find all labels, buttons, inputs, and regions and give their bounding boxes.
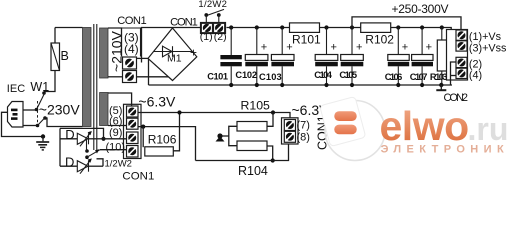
terminal CON2 pin 4 (screw) bbox=[456, 68, 467, 78]
wire +250-300V bus bbox=[352, 17, 461, 31]
terminal CON2 pin 1 (screw) bbox=[456, 30, 467, 40]
junction C103 top bbox=[280, 25, 284, 29]
wire switch to pin10 bbox=[100, 149, 127, 151]
terminal CON1 pin 9 (screw) bbox=[127, 132, 139, 144]
svg-text:~6.3V: ~6.3V bbox=[138, 93, 176, 109]
wire fuse bottom lead bbox=[44, 71, 55, 92]
svg-text:IEC: IEC bbox=[7, 83, 25, 95]
wire ground stub to pins 2 and 4 bbox=[451, 62, 457, 85]
wire heater leg B to CON1 out pin8 bbox=[196, 142, 289, 160]
wire bottom rail bbox=[149, 84, 453, 86]
svg-text:C104: C104 bbox=[314, 70, 332, 80]
svg-text:C106: C106 bbox=[385, 72, 403, 82]
terminal CON1 pin 6 (screw) bbox=[127, 118, 139, 129]
svg-text:W1: W1 bbox=[30, 80, 49, 94]
junction R103 top bbox=[440, 25, 444, 29]
svg-text:(1): (1) bbox=[200, 31, 213, 43]
wire R106 right riser to heater leg A bbox=[173, 113, 179, 151]
svg-text:(2): (2) bbox=[469, 58, 482, 70]
fuse B body bbox=[51, 43, 60, 71]
wire LV winding bottom to pin6 bbox=[108, 125, 127, 127]
wire fuse top lead bbox=[54, 28, 56, 44]
connector CON1 out body bbox=[282, 118, 299, 144]
junction C101 bottom bbox=[229, 83, 233, 87]
wire pin4 to bridge bottom vertex bbox=[137, 76, 169, 78]
transformer HV secondary winding ~210V bbox=[100, 28, 108, 78]
svg-text:CON1: CON1 bbox=[170, 17, 198, 29]
svg-text:C107: C107 bbox=[410, 72, 428, 82]
ground symbol bbox=[36, 137, 49, 150]
junction C106 bottom bbox=[396, 83, 400, 87]
junction C107 top bbox=[420, 25, 424, 29]
wire dial lamp box top bbox=[60, 128, 104, 138]
junction C102 bottom bbox=[255, 83, 259, 87]
svg-text:R103: R103 bbox=[430, 72, 448, 82]
svg-text:+250-300V: +250-300V bbox=[392, 2, 449, 16]
terminal CON1 pin 4 (screw) bbox=[123, 71, 137, 83]
capacitor C106 (electrolytic) bbox=[388, 28, 409, 86]
wire R106 left drop bbox=[142, 127, 144, 148]
svg-text:R106: R106 bbox=[148, 132, 177, 146]
junction R106 right node bbox=[177, 110, 181, 114]
resistor R102 bbox=[361, 23, 391, 33]
switch W1 pole 2 bbox=[36, 116, 47, 127]
wire stub to pin 4 bbox=[451, 75, 457, 77]
svg-text:C101: C101 bbox=[207, 71, 228, 81]
svg-text:D: D bbox=[65, 127, 74, 142]
wire IEC bottom pin to switch bbox=[23, 125, 37, 127]
svg-text:(1)+Vs: (1)+Vs bbox=[469, 31, 502, 43]
svg-text:(7): (7) bbox=[297, 120, 310, 132]
IEC inlet connector bbox=[8, 102, 24, 128]
svg-text:R101: R101 bbox=[292, 33, 321, 47]
terminal W2 pin 1 (screw) bbox=[201, 23, 212, 32]
terminal W2 pin 2 (screw) bbox=[214, 23, 225, 32]
wire IEC top pin to switch bbox=[23, 109, 36, 111]
connector CON1 LV body bbox=[124, 104, 142, 158]
svg-text:CON1: CON1 bbox=[122, 170, 154, 181]
capacitor C101 bbox=[220, 28, 241, 86]
wire heater leg A pin6 to CON1 out pin7 bbox=[138, 113, 291, 120]
junction heater B bbox=[271, 158, 275, 162]
svg-text:.ru: .ru bbox=[468, 111, 508, 147]
capacitor C107 (electrolytic) bbox=[412, 28, 433, 86]
junction R106 left node bbox=[141, 125, 145, 129]
resistor R106 bbox=[145, 147, 174, 156]
connector CON1 W2 body bbox=[201, 23, 226, 34]
junction C105 bottom bbox=[350, 83, 354, 87]
wire switch pole2 to primary bottom bbox=[45, 118, 83, 127]
capacitor C105 (electrolytic) bbox=[341, 28, 364, 86]
junction C106 top bbox=[396, 25, 400, 29]
switch W1 mechanical link (dashed) bbox=[37, 101, 39, 123]
svg-text:1/2W2: 1/2W2 bbox=[198, 0, 227, 10]
svg-text:(4): (4) bbox=[124, 42, 139, 56]
diode D1 bbox=[60, 131, 104, 146]
junction C101 top bbox=[229, 25, 233, 29]
svg-text:+: + bbox=[190, 46, 197, 60]
terminal CON1 pin 8 (screw) bbox=[284, 131, 295, 142]
svg-text:(9): (9) bbox=[109, 127, 122, 139]
junction heater A / humdinger R105 bbox=[271, 110, 275, 114]
wire D2 output loop to switch bbox=[97, 159, 104, 166]
svg-text:CON2: CON2 bbox=[444, 92, 469, 104]
junction R103 bottom bbox=[439, 83, 443, 87]
junction C102 top bbox=[255, 25, 259, 29]
wire rail R101 to R102 bbox=[320, 27, 361, 29]
svg-text:C105: C105 bbox=[339, 70, 357, 80]
resistor R105 bbox=[237, 122, 267, 132]
svg-text:R105: R105 bbox=[241, 99, 271, 113]
wire HV secondary top to connector bbox=[108, 28, 122, 57]
transformer B primary winding bbox=[83, 28, 92, 127]
wire top-left rail from fuse to transformer primary bbox=[55, 27, 83, 29]
switch 1/2W2 top bbox=[204, 9, 224, 23]
wire center tap bbox=[222, 135, 229, 137]
terminal CON1 pin 5 (screw) bbox=[127, 106, 139, 117]
svg-text:M1: M1 bbox=[167, 53, 182, 65]
svg-text:(2): (2) bbox=[214, 31, 227, 43]
terminal CON1 pin 10 (screw) bbox=[127, 146, 139, 158]
wire dial lamp box left bbox=[59, 128, 61, 166]
switch W1 pole 1 bbox=[35, 91, 46, 111]
wire pin3 to bridge input (vertical riser) bbox=[142, 28, 201, 63]
resistor R101 bbox=[290, 23, 320, 33]
resistor R103 bbox=[437, 28, 447, 86]
wire HV secondary bottom to pin4 bbox=[108, 76, 123, 78]
svg-text:CON1: CON1 bbox=[117, 15, 147, 27]
svg-text:C103: C103 bbox=[259, 72, 282, 82]
diode D2 bbox=[60, 158, 103, 173]
chassis tap on bottom rail bbox=[436, 85, 446, 90]
svg-text:C102: C102 bbox=[235, 70, 257, 80]
svg-text:R104: R104 bbox=[238, 164, 268, 178]
logo elwo.ru watermark bbox=[320, 96, 508, 160]
connector CON1 HV body box bbox=[122, 28, 141, 57]
junction C104 top bbox=[324, 25, 328, 29]
svg-text:(10): (10) bbox=[106, 142, 126, 154]
svg-text:elwo: elwo bbox=[380, 103, 469, 149]
wire bridge negative output down to bottom rail bbox=[148, 58, 150, 85]
chassis tap symbol bbox=[216, 133, 225, 141]
svg-text:D: D bbox=[65, 155, 74, 170]
svg-text:+: + bbox=[331, 42, 337, 54]
wire dial lamp output to pin9 bbox=[104, 138, 127, 140]
svg-text:+: + bbox=[261, 42, 267, 54]
wire R104 right riser to heater leg B bbox=[267, 146, 273, 161]
wire main positive rail bbox=[227, 27, 290, 29]
terminal CON1 pin 7 (screw) bbox=[284, 120, 295, 131]
wire rail R102 to CON2 bbox=[391, 28, 456, 51]
terminal CON2 pin 3 (screw) bbox=[456, 41, 467, 51]
resistor R104 bbox=[237, 141, 267, 151]
terminal CON2 pin 2 (screw) bbox=[456, 57, 467, 67]
wire R105 right riser bbox=[267, 113, 273, 127]
connector CON2 body bbox=[447, 30, 468, 81]
wire IEC earth to ground bbox=[2, 112, 42, 136]
svg-text:(3)+Vss: (3)+Vss bbox=[469, 43, 507, 55]
svg-text:ЭЛЕКТРОНИК: ЭЛЕКТРОНИК bbox=[381, 143, 508, 155]
junction C107 bottom bbox=[420, 83, 424, 87]
svg-text:(8): (8) bbox=[297, 132, 310, 144]
svg-text:1/2W2: 1/2W2 bbox=[105, 159, 132, 170]
capacitor C102 (electrolytic) bbox=[245, 28, 268, 86]
svg-text:(4): (4) bbox=[469, 70, 482, 82]
svg-text:+: + bbox=[356, 42, 362, 54]
svg-text:+: + bbox=[426, 42, 432, 54]
capacitor C104 (electrolytic) bbox=[315, 28, 338, 86]
transformer LV secondary winding ~6.3V bbox=[100, 93, 108, 126]
bridge rectifier M1 bbox=[148, 28, 197, 81]
junction C105 / +250-300V tap bbox=[350, 25, 354, 29]
junction C104 bottom bbox=[324, 83, 328, 87]
svg-text:~230V: ~230V bbox=[39, 102, 81, 118]
junction earth node bbox=[41, 134, 45, 138]
svg-text:R102: R102 bbox=[365, 33, 394, 47]
wire humdinger left bracket bbox=[229, 126, 237, 145]
junction dial lamp output bbox=[101, 137, 105, 141]
wire pin6 to heater leg B riser bbox=[138, 127, 196, 161]
transformer core bbox=[94, 24, 97, 150]
switch 1/2W2 bottom bbox=[85, 140, 100, 160]
wire pin3 to bridge left vertex bbox=[137, 57, 149, 59]
terminal CON1 pin 3 (screw) bbox=[123, 57, 137, 69]
svg-text:+: + bbox=[402, 42, 408, 54]
junction C103 bottom bbox=[280, 83, 284, 87]
wire LV winding top to pin5 bbox=[108, 93, 132, 106]
capacitor C103 (electrolytic) bbox=[271, 28, 294, 86]
svg-text:B: B bbox=[61, 49, 69, 63]
